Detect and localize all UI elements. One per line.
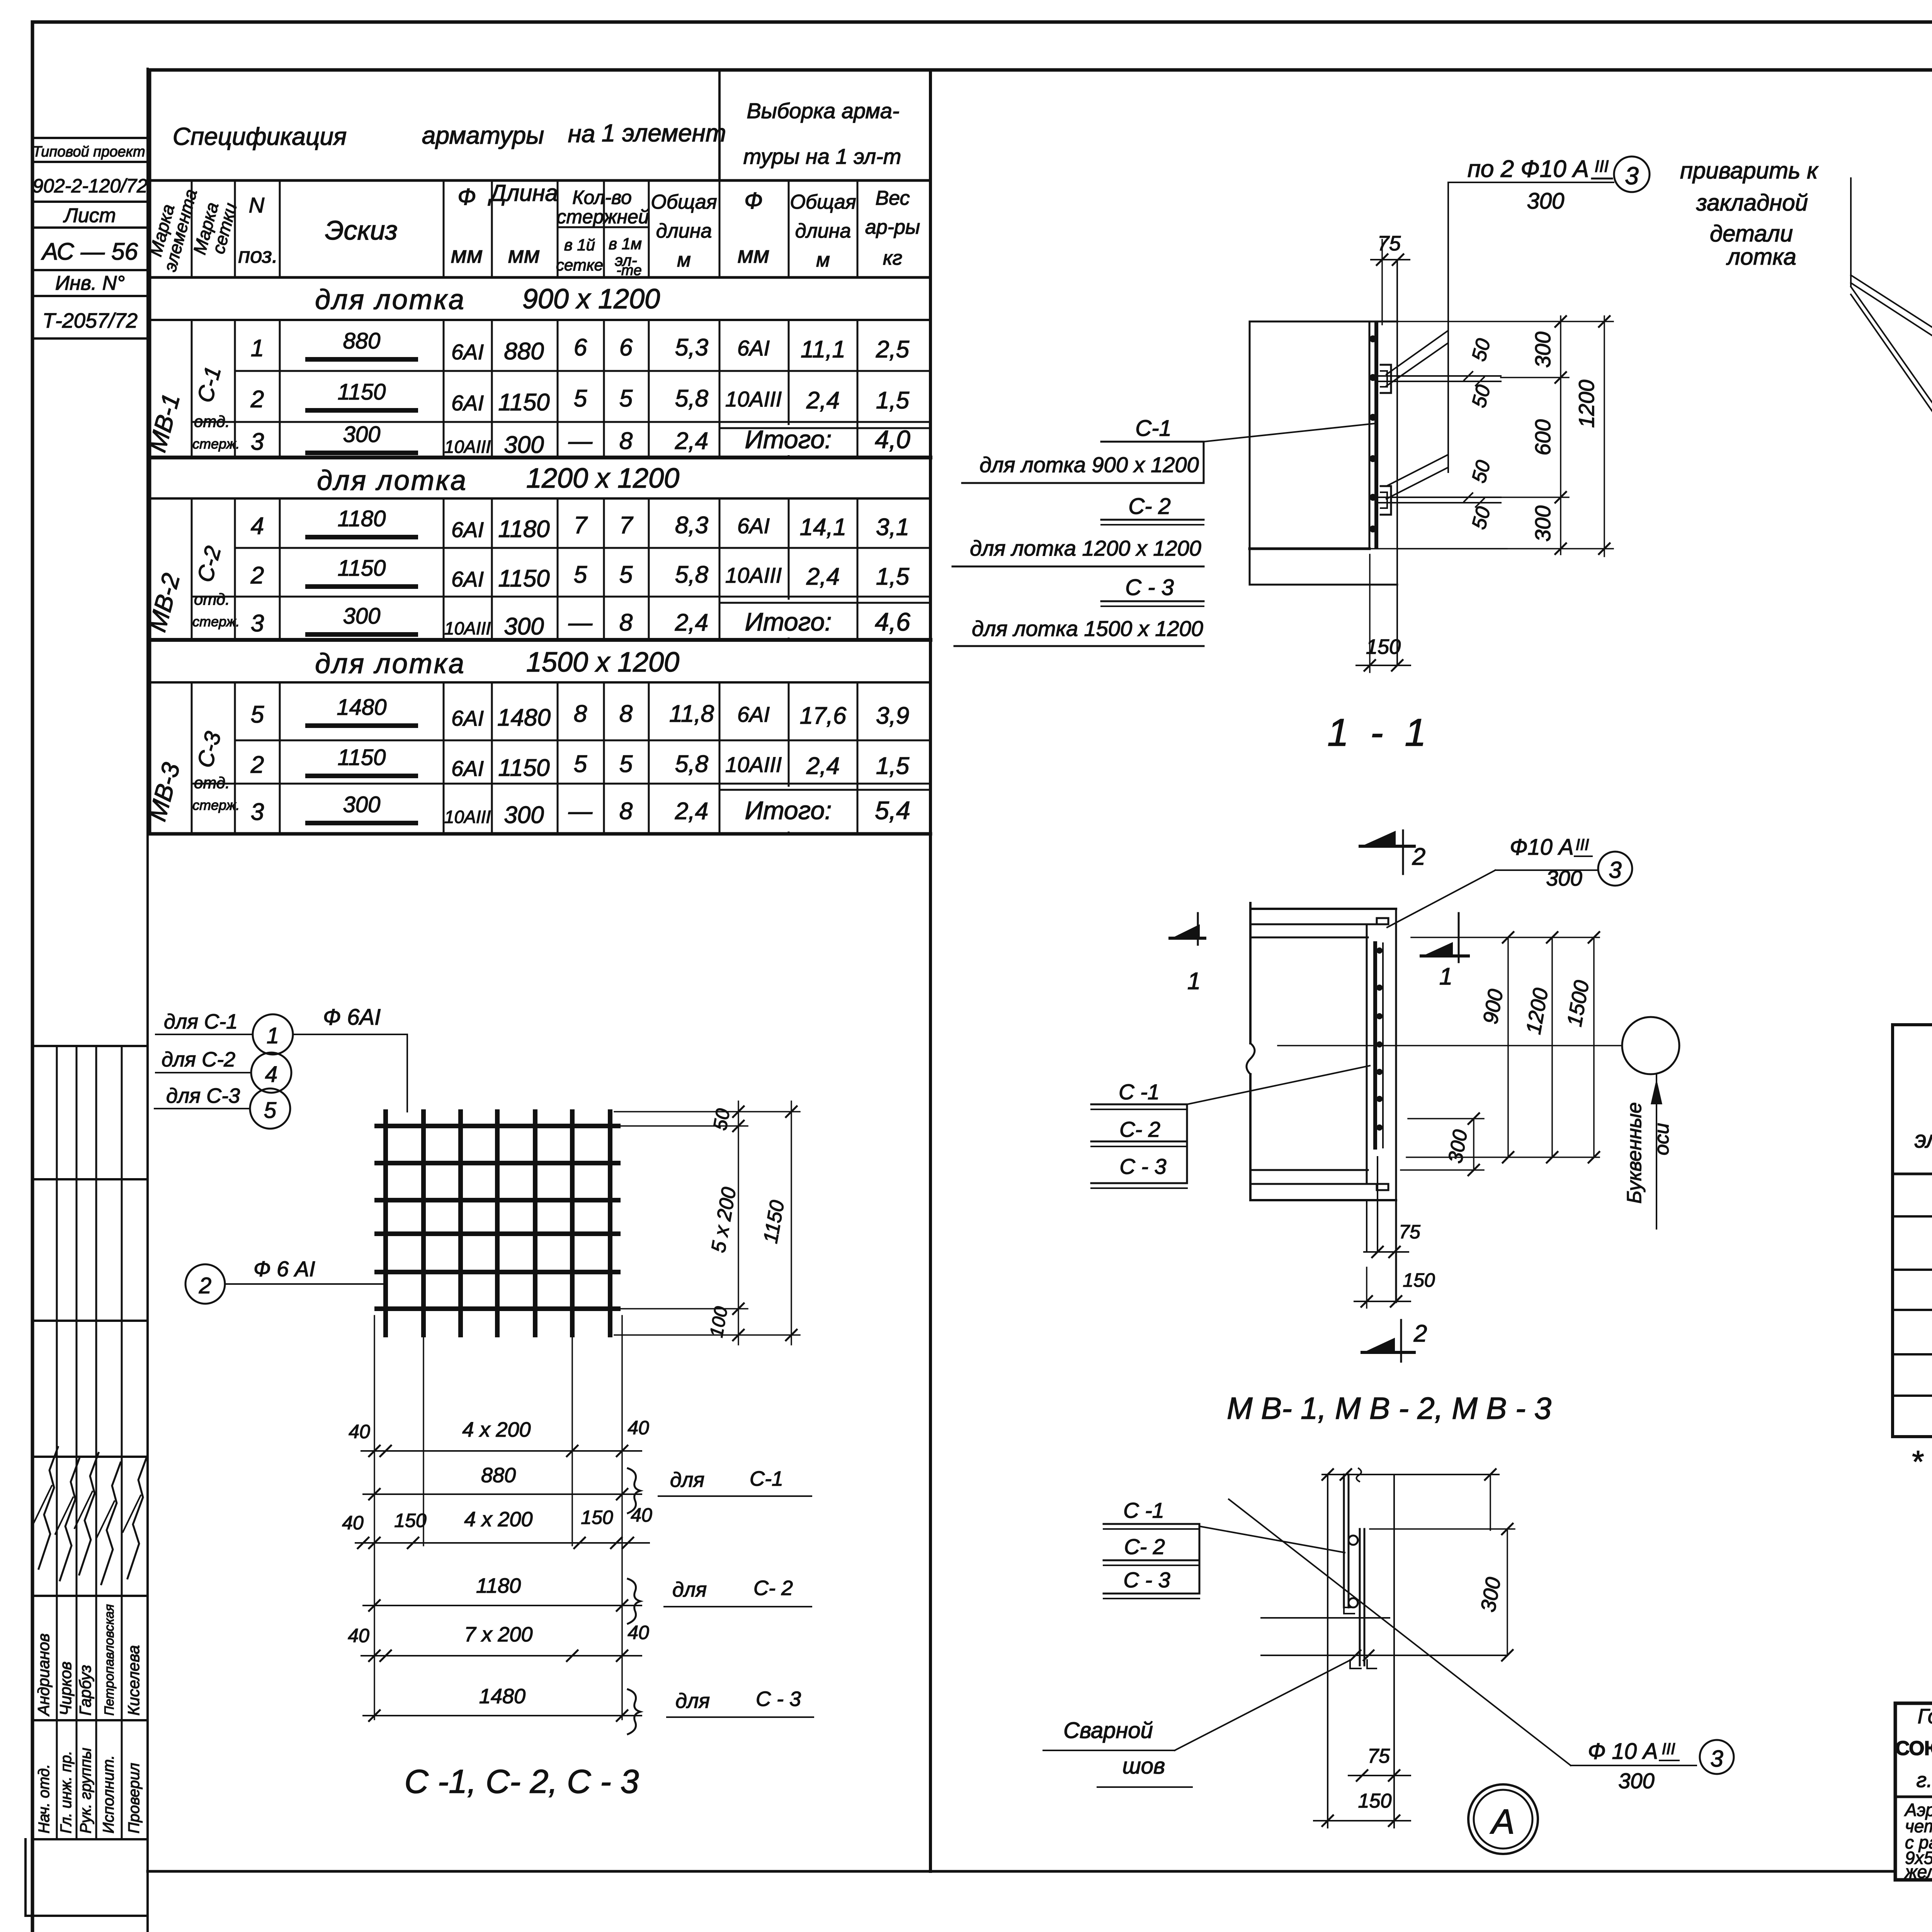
leader C-1 to plate	[1204, 423, 1375, 442]
section mark 2 top	[1360, 845, 1414, 848]
svg-text:902-2-120/72: 902-2-120/72	[32, 175, 148, 197]
svg-text:1500 х 1200: 1500 х 1200	[526, 647, 679, 678]
svg-text:6: 6	[574, 334, 587, 361]
leader diagonals from weld note left	[1850, 178, 1852, 286]
svg-text:1 - 1: 1 - 1	[1327, 711, 1432, 754]
svg-text:3,9: 3,9	[876, 702, 909, 729]
svg-text:4: 4	[265, 1062, 277, 1087]
svg-text:в 1м: в 1м	[609, 235, 642, 253]
title block frame	[1895, 1703, 1932, 1880]
svg-text:1180: 1180	[338, 506, 386, 531]
svg-text:арматуры: арматуры	[422, 121, 544, 149]
anchor bars lower	[1376, 497, 1501, 498]
svg-text:3: 3	[251, 799, 264, 825]
svg-text:для лотка 1500 х 1200: для лотка 1500 х 1200	[972, 616, 1203, 641]
section mark 2 bottom	[1362, 1351, 1414, 1354]
leader from weld C stack	[1199, 1526, 1345, 1553]
svg-text:40: 40	[349, 1421, 370, 1442]
anchor diagonals	[1386, 331, 1448, 374]
svg-text:кг: кг	[883, 247, 902, 269]
svg-text:—: —	[568, 428, 593, 454]
svg-text:150: 150	[1403, 1269, 1435, 1291]
svg-text:С- 2: С- 2	[1119, 1117, 1160, 1141]
svg-text:Лист: Лист	[63, 204, 116, 227]
svg-text:1150: 1150	[498, 565, 549, 592]
svg-text:300: 300	[504, 432, 544, 458]
svg-text:Нач. отд.: Нач. отд.	[36, 1764, 53, 1833]
svg-text:мм: мм	[738, 242, 769, 268]
svg-text:40: 40	[628, 1417, 649, 1439]
svg-text:закладной: закладной	[1696, 190, 1808, 216]
svg-text:для С-1: для С-1	[164, 1010, 238, 1033]
mesh horizontal bars	[377, 1124, 618, 1128]
svg-text:Ф: Ф	[744, 188, 763, 214]
svg-text:1480: 1480	[497, 704, 551, 731]
spec table header column lines	[191, 180, 193, 277]
plate element lower	[1359, 1529, 1361, 1665]
svg-text:880: 880	[504, 338, 544, 365]
svg-text:М В- 1, М В - 2, М В - 3: М В- 1, М В - 2, М В - 3	[1227, 1391, 1551, 1425]
svg-text:6АI: 6АI	[451, 567, 484, 591]
svg-text:40: 40	[628, 1622, 649, 1643]
svg-text:мм: мм	[508, 242, 540, 268]
svg-text:Т-2057/72: Т-2057/72	[43, 309, 138, 332]
mesh vertical bars	[383, 1112, 388, 1335]
spec table outer border	[148, 70, 151, 834]
svg-text:40: 40	[631, 1504, 652, 1526]
svg-text:3: 3	[1625, 162, 1639, 190]
svg-text:300: 300	[504, 613, 544, 640]
svg-text:АС — 56: АС — 56	[41, 238, 138, 265]
element strip in plan	[1366, 924, 1368, 1184]
signature block lower box	[26, 1915, 148, 1917]
weld marks bottom	[1350, 1650, 1361, 1660]
svg-text:300: 300	[1531, 332, 1555, 367]
svg-text:1480: 1480	[479, 1685, 526, 1708]
svg-text:8,3: 8,3	[675, 512, 708, 539]
weld detail verticals	[1327, 1475, 1328, 1654]
svg-text:2,5: 2,5	[876, 336, 910, 363]
itogo merged cell covers	[721, 425, 852, 455]
svg-text:6АI: 6АI	[737, 514, 770, 538]
svg-text:г. Москва: г. Москва	[1916, 1769, 1932, 1792]
svg-text:Итого:: Итого:	[745, 796, 832, 825]
extension verticals below mesh	[374, 1316, 375, 1719]
svg-text:14,1: 14,1	[800, 514, 847, 541]
leader svarnoy shov	[1175, 1660, 1351, 1750]
svg-text:5,8: 5,8	[675, 751, 709, 777]
svg-text:для лотка 1200 х 1200: для лотка 1200 х 1200	[970, 536, 1201, 560]
svg-text:2: 2	[250, 386, 264, 413]
section mark 1 left	[1170, 937, 1205, 940]
anchor dots in plan	[1376, 947, 1383, 954]
svg-text:—: —	[568, 609, 593, 636]
svg-text:150: 150	[1366, 635, 1401, 658]
svg-text:75: 75	[1399, 1221, 1420, 1243]
vertical divider of vyborka header	[718, 70, 721, 180]
svg-text:туры на 1 эл-т: туры на 1 эл-т	[743, 144, 901, 168]
svg-text:для лотка 900 х 1200: для лотка 900 х 1200	[980, 452, 1199, 477]
svg-text:Ф 6АI: Ф 6АI	[323, 1005, 381, 1030]
svg-text:С- 2: С- 2	[1124, 1534, 1165, 1559]
svg-text:для лотка: для лотка	[315, 648, 466, 679]
channel plan outline	[1249, 903, 1252, 1043]
svg-text:300: 300	[343, 792, 381, 817]
svg-text:5: 5	[619, 751, 633, 777]
svg-text:А: А	[1490, 1803, 1515, 1841]
svg-text:1150: 1150	[498, 389, 549, 416]
vertical below plate	[1393, 1475, 1395, 1828]
svg-text:1150: 1150	[338, 556, 386, 581]
svg-text:10АIII: 10АIII	[444, 437, 491, 457]
svg-text:2: 2	[250, 562, 264, 589]
svg-text:С - 3: С - 3	[1125, 575, 1174, 600]
materials table frame	[1893, 1025, 1932, 1437]
svg-text:С - 3: С - 3	[756, 1687, 801, 1711]
stamp Inv No	[32, 295, 148, 297]
svg-text:880: 880	[343, 328, 381, 354]
svg-text:4 х 200: 4 х 200	[462, 1418, 531, 1441]
wall outline section 1-1	[1250, 321, 1397, 323]
svg-text:Кол-во: Кол-во	[572, 187, 632, 208]
svg-text:5: 5	[251, 701, 264, 728]
svg-text:3: 3	[251, 610, 264, 637]
slab lines weld detail	[1261, 1617, 1389, 1619]
svg-text:10АIII: 10АIII	[725, 752, 782, 777]
svg-text:оси: оси	[1651, 1123, 1673, 1155]
svg-text:1200: 1200	[1574, 380, 1599, 428]
stamp AS-56	[32, 269, 148, 271]
svg-text:детали: детали	[1710, 221, 1793, 247]
svg-text:м: м	[677, 249, 691, 271]
signatures	[39, 1447, 58, 1569]
svg-text:Исполнит.: Исполнит.	[100, 1755, 117, 1833]
svg-text:6АI: 6АI	[451, 756, 484, 781]
svg-text:Длина: Длина	[488, 180, 558, 206]
300 dim weld detail	[1370, 1528, 1515, 1530]
svg-text:железобетона.: железобетона.	[1904, 1862, 1932, 1882]
svg-text:длина: длина	[656, 220, 712, 242]
svg-text:2: 2	[1412, 844, 1425, 870]
svg-text:Чирков: Чирков	[56, 1662, 75, 1716]
svg-text:Вес: Вес	[875, 187, 910, 209]
rebar dots	[1369, 335, 1376, 342]
stamp List	[32, 226, 148, 229]
svg-text:Общая: Общая	[651, 191, 717, 213]
svg-text:5: 5	[619, 385, 633, 412]
svg-text:для: для	[672, 1578, 707, 1601]
signature block grid	[32, 1045, 148, 1047]
dim 300 plan	[1473, 1119, 1475, 1170]
svg-text:880: 880	[481, 1464, 516, 1487]
svg-text:2,4: 2,4	[675, 609, 708, 636]
insert plate MV section	[1369, 321, 1371, 549]
svg-text:150: 150	[1358, 1790, 1392, 1812]
svg-text:7: 7	[619, 512, 634, 539]
svg-text:8: 8	[619, 609, 633, 636]
svg-text:Спецификация: Спецификация	[173, 122, 347, 150]
svg-text:10АIII: 10АIII	[444, 807, 491, 827]
svg-text:Киселева: Киселева	[124, 1645, 143, 1716]
svg-text:6АI: 6АI	[451, 391, 484, 415]
svg-text:1,5: 1,5	[876, 387, 910, 414]
spec table band and row lines	[150, 319, 930, 321]
svg-text:Инв. N°: Инв. N°	[55, 272, 125, 294]
svg-text:Ф 6 АI: Ф 6 АI	[253, 1257, 315, 1281]
svg-text:300: 300	[1531, 505, 1555, 541]
content top border	[149, 68, 1932, 72]
svg-text:40: 40	[342, 1512, 364, 1534]
svg-text:1180: 1180	[498, 516, 549, 543]
svg-text:III: III	[1575, 835, 1589, 854]
svg-text:7 х 200: 7 х 200	[464, 1623, 532, 1646]
svg-text:900 х 1200: 900 х 1200	[522, 284, 660, 315]
svg-text:Итого:: Итого:	[745, 607, 832, 636]
svg-text:Рук. группы: Рук. группы	[77, 1748, 94, 1833]
svg-text:300: 300	[504, 802, 544, 828]
svg-text:С- 2: С- 2	[1128, 494, 1171, 519]
svg-text:5,8: 5,8	[675, 561, 709, 588]
svg-text:6АI: 6АI	[451, 340, 484, 364]
svg-text:1,5: 1,5	[876, 753, 910, 779]
svg-text:10АIII: 10АIII	[725, 563, 782, 587]
svg-text:2,4: 2,4	[675, 428, 708, 454]
svg-text:Гарбуз: Гарбуз	[76, 1665, 94, 1716]
embedded bracket upper	[1381, 365, 1391, 393]
row MV-2	[1893, 1353, 1932, 1355]
stamp T-2057/72	[32, 337, 148, 340]
stamp box Tipovoy proekt	[32, 137, 148, 139]
svg-text:Буквенные: Буквенные	[1623, 1102, 1646, 1204]
svg-text:С- 2: С- 2	[753, 1577, 793, 1600]
band dlya lotka 1200x1200	[1893, 1309, 1932, 1311]
svg-text:Ф10 А: Ф10 А	[1510, 835, 1573, 860]
svg-text:стерж.: стерж.	[192, 436, 240, 452]
right dim 50 5x200 100 1150	[614, 1111, 800, 1112]
svg-text:17,6: 17,6	[800, 702, 847, 729]
svg-text:5: 5	[574, 385, 587, 412]
svg-text:3: 3	[251, 429, 264, 455]
svg-text:1150: 1150	[338, 745, 386, 770]
vertical dims 900 1200 1500	[1411, 937, 1599, 938]
svg-text:300: 300	[343, 604, 381, 629]
svg-text:лотка: лотка	[1726, 244, 1796, 270]
svg-text:отд.: отд.	[194, 590, 230, 608]
svg-text:стерж.: стерж.	[192, 614, 240, 629]
anchor bars upper	[1376, 375, 1501, 377]
detail circle A	[1468, 1784, 1538, 1854]
svg-text:300: 300	[1527, 189, 1565, 214]
svg-text:ар-ры: ар-ры	[865, 216, 920, 238]
svg-text:6АI: 6АI	[737, 702, 770, 726]
svg-text:3,1: 3,1	[876, 514, 909, 541]
svg-text:III: III	[1662, 1740, 1675, 1758]
svg-text:2,4: 2,4	[806, 387, 840, 414]
svg-text:2: 2	[1413, 1320, 1427, 1347]
svg-text:6АI: 6АI	[737, 336, 770, 360]
svg-text:приварить к: приварить к	[1680, 158, 1819, 184]
svg-text:11,8: 11,8	[669, 701, 714, 727]
svg-text:С -1: С -1	[1119, 1080, 1160, 1104]
svg-text:2,4: 2,4	[806, 563, 840, 590]
svg-text:1: 1	[267, 1023, 279, 1048]
svg-text:1180: 1180	[476, 1574, 521, 1597]
svg-text:Ф 10 А: Ф 10 А	[1588, 1739, 1658, 1764]
svg-text:8: 8	[619, 701, 633, 727]
bukvennye osi vertical	[1656, 1074, 1657, 1229]
svg-text:N: N	[249, 193, 265, 217]
svg-text:стерж.: стерж.	[192, 797, 240, 813]
svg-text:III: III	[1595, 157, 1609, 176]
svg-text:600: 600	[1531, 419, 1555, 455]
leader from C stack to plate	[1187, 1066, 1370, 1104]
weld circles	[1349, 1536, 1358, 1545]
svg-text:3: 3	[1710, 1746, 1723, 1772]
svg-text:1: 1	[1439, 963, 1452, 990]
svg-text:Петропавловская: Петропавловская	[102, 1604, 117, 1716]
svg-text:2,4: 2,4	[806, 753, 840, 779]
svg-text:8: 8	[574, 701, 587, 727]
svg-text:Типовой проект: Типовой проект	[32, 144, 145, 160]
svg-text:для лотка: для лотка	[315, 284, 466, 315]
svg-text:для: для	[670, 1468, 704, 1492]
svg-text:1150: 1150	[498, 755, 549, 781]
svg-text:С-1: С-1	[750, 1467, 783, 1490]
svg-text:10АIII: 10АIII	[725, 387, 782, 411]
svg-text:5,4: 5,4	[875, 796, 910, 825]
svg-text:СОЮЗВОДОКАНАЛПРОЕКТ: СОЮЗВОДОКАНАЛПРОЕКТ	[1895, 1737, 1932, 1760]
svg-text:6АI: 6АI	[451, 517, 484, 542]
svg-text:С - 3: С - 3	[1119, 1154, 1166, 1179]
svg-text:1: 1	[1187, 968, 1201, 995]
svg-text:С-1: С-1	[1135, 416, 1171, 441]
svg-text:Общая: Общая	[790, 191, 856, 213]
svg-text:Сварной: Сварной	[1063, 1718, 1153, 1743]
svg-text:6АI: 6АI	[451, 706, 484, 730]
svg-text:300: 300	[1618, 1769, 1654, 1793]
svg-text:1: 1	[251, 335, 264, 362]
svg-text:для лотка: для лотка	[317, 465, 468, 496]
svg-text:отд.: отд.	[194, 774, 230, 792]
svg-text:поз.: поз.	[238, 243, 278, 267]
content bottom border	[148, 1870, 1895, 1873]
svg-text:75: 75	[1378, 232, 1401, 255]
svg-text:Эскиз: Эскиз	[325, 215, 398, 245]
svg-text:4 х 200: 4 х 200	[464, 1508, 532, 1531]
svg-text:10АIII: 10АIII	[444, 618, 491, 638]
svg-text:шов: шов	[1122, 1753, 1165, 1779]
svg-text:5: 5	[574, 561, 587, 588]
callout circle 2 F6AI	[185, 1264, 225, 1304]
svg-text:1480: 1480	[337, 695, 386, 720]
dim line 1200	[1604, 316, 1605, 556]
svg-text:150: 150	[394, 1510, 427, 1531]
axis circle plan	[1622, 1017, 1679, 1074]
svg-text:стержней: стержней	[556, 206, 649, 228]
svg-text:7: 7	[574, 512, 588, 539]
svg-text:Выборка арма-: Выборка арма-	[747, 99, 899, 123]
svg-text:75: 75	[1367, 1745, 1390, 1767]
embedded bracket lower	[1381, 486, 1391, 515]
spec table header row line	[150, 179, 930, 182]
svg-text:50: 50	[709, 1107, 734, 1132]
band dlya lotka 1500x1200	[1893, 1395, 1932, 1397]
svg-text:для С-2: для С-2	[162, 1048, 235, 1071]
spec table column header bottom	[150, 276, 930, 279]
svg-text:1200 х 1200: 1200 х 1200	[526, 463, 679, 494]
embedded plate in plan	[1373, 943, 1377, 1148]
svg-text:Андрианов: Андрианов	[34, 1633, 53, 1717]
svg-text:длина: длина	[795, 220, 851, 242]
stamp 902-2-120/72	[32, 201, 148, 203]
svg-text:3: 3	[1609, 857, 1621, 883]
centerline to axis circle	[1278, 1045, 1622, 1046]
svg-text:отд.: отд.	[194, 412, 230, 430]
svg-text:для С-3: для С-3	[166, 1084, 240, 1107]
svg-text:4: 4	[251, 513, 264, 539]
svg-text:на: на	[568, 120, 595, 148]
svg-text:8: 8	[619, 798, 633, 825]
svg-text:2: 2	[199, 1273, 211, 1298]
svg-text:40: 40	[348, 1625, 369, 1646]
long leader diagonal	[1229, 1499, 1571, 1765]
svg-text:Госстрой: Госстрой	[1918, 1705, 1932, 1728]
spec table data column lines	[191, 320, 193, 457]
svg-text:сетке: сетке	[556, 256, 603, 274]
svg-text:6: 6	[619, 334, 633, 361]
svg-text:Гл. инж. пр.: Гл. инж. пр.	[58, 1751, 75, 1833]
svg-text:2,4: 2,4	[675, 798, 708, 825]
svg-text:150: 150	[581, 1507, 613, 1528]
svg-text:5,8: 5,8	[675, 385, 709, 412]
svg-text:8: 8	[619, 428, 633, 454]
svg-text:2: 2	[250, 752, 264, 778]
svg-text:4,6: 4,6	[875, 607, 910, 636]
svg-text:С -1: С -1	[1123, 1498, 1164, 1522]
svg-text:м: м	[816, 249, 830, 271]
svg-text:300: 300	[343, 422, 381, 447]
svg-text:5,3: 5,3	[675, 334, 708, 361]
left strip divider	[146, 69, 149, 1932]
svg-text:Ф: Ф	[457, 184, 476, 210]
section mark 1 right	[1421, 954, 1468, 957]
svg-text:1 элемент: 1 элемент	[602, 119, 726, 147]
svg-text:С - 3: С - 3	[1123, 1568, 1170, 1592]
svg-text:в 1й: в 1й	[564, 236, 595, 254]
svg-text:Проверил: Проверил	[126, 1763, 143, 1833]
band dlya lotka 900x1200	[1893, 1215, 1932, 1218]
svg-text:4,0: 4,0	[875, 425, 910, 454]
svg-text:11,1: 11,1	[801, 336, 845, 363]
svg-text:для: для	[675, 1689, 710, 1713]
svg-text:-те: -те	[616, 262, 641, 279]
svg-text:1,5: 1,5	[876, 563, 910, 590]
svg-text:—: —	[568, 798, 593, 825]
svg-text:по 2 Ф10 А: по 2 Ф10 А	[1468, 156, 1589, 182]
leader vertical to anchors	[1447, 182, 1449, 472]
dim line 300-600-300	[1560, 316, 1561, 554]
svg-text:1150: 1150	[338, 379, 386, 405]
svg-text:5: 5	[264, 1098, 277, 1123]
leader circle 3	[1614, 156, 1650, 192]
svg-text:С -1, С- 2, С - 3: С -1, С- 2, С - 3	[405, 1763, 639, 1800]
svg-text:элемента: элемента	[1915, 1126, 1932, 1153]
svg-text:Итого:: Итого:	[745, 425, 832, 454]
row MV-1	[1893, 1269, 1932, 1271]
svg-text:5: 5	[619, 561, 633, 588]
weld detail top dim line	[1322, 1474, 1499, 1475]
svg-text:мм: мм	[451, 242, 483, 268]
